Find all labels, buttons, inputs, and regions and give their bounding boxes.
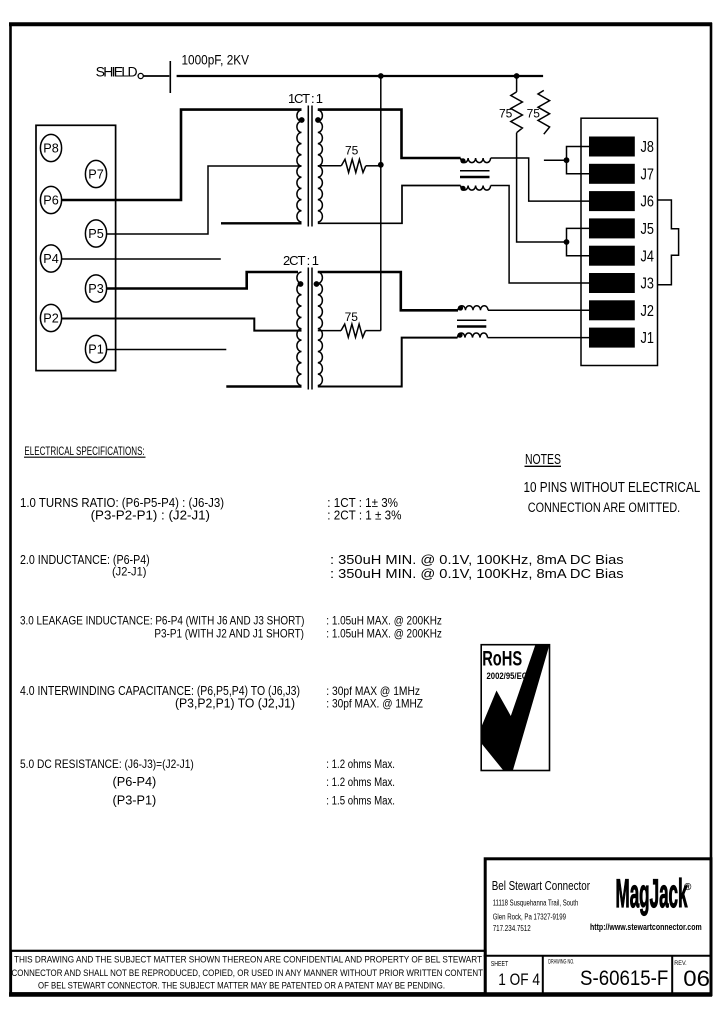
pin P1 [85, 335, 106, 362]
title block divider horizontal [484, 955, 711, 957]
svg-text:J6: J6 [641, 194, 654, 211]
pin P7 [85, 160, 106, 187]
resistor R1 75 ohm (T1 termination) [341, 159, 366, 172]
svg-text:(J2-J1): (J2-J1) [112, 565, 146, 579]
inductor L3 choke winding (T2 top) [458, 306, 488, 311]
svg-text:Bel Stewart Connector: Bel Stewart Connector [492, 879, 590, 893]
transformer T1 secondary winding [318, 110, 323, 222]
pin P5 [85, 220, 106, 247]
node junction dot J5/J4 bridge [564, 239, 570, 245]
svg-text:(P3-P1): (P3-P1) [113, 793, 157, 808]
svg-text:: 1.2 ohms Max.: : 1.2 ohms Max. [326, 777, 395, 789]
svg-text:75: 75 [499, 107, 513, 121]
wire P1 stub [107, 349, 227, 351]
svg-text:J2: J2 [641, 303, 654, 320]
disclaimer box [11, 951, 486, 994]
svg-text:06: 06 [683, 966, 710, 991]
wire T1 primary bottom lead [221, 222, 302, 224]
svg-text:2CT : 1: 2CT : 1 [283, 253, 319, 268]
resistor R2 75 ohm (T2 termination) [341, 324, 366, 337]
wire L3 to J2 [488, 309, 589, 311]
pin P2 [40, 304, 61, 331]
wire R1 to shield bus [366, 165, 381, 167]
svg-text:: 30pf MAX. @ 1MHZ: : 30pf MAX. @ 1MHZ [326, 697, 423, 711]
svg-text:75: 75 [345, 144, 359, 158]
pin J8 [589, 137, 654, 157]
resistor R4 75 ohm vertical (floating) [538, 90, 550, 134]
svg-text:P1: P1 [88, 341, 104, 356]
svg-text:THIS DRAWING AND THE SUBJECT M: THIS DRAWING AND THE SUBJECT MATTER SHOW… [14, 955, 482, 966]
svg-text:(P3,P2,P1) TO (J2,J1): (P3,P2,P1) TO (J2,J1) [175, 696, 295, 711]
pin J3 [589, 273, 654, 293]
wire L1 to J6 [491, 158, 589, 201]
resistor R3 75 ohm vertical [511, 92, 523, 133]
connector P box [36, 125, 116, 370]
svg-text:ELECTRICAL SPECIFICATIONS:: ELECTRICAL SPECIFICATIONS: [24, 446, 144, 458]
svg-text:1000pF, 2KV: 1000pF, 2KV [182, 52, 250, 68]
wire shield to capacitor [143, 75, 169, 77]
disclaimer text [12, 955, 484, 992]
pin J7 [589, 164, 654, 184]
capacitor C1 plate [169, 61, 171, 93]
title block outer box [485, 859, 711, 995]
wire R2 to shield bus [366, 330, 381, 332]
transformer T1 phase dot primary [299, 117, 305, 123]
svg-text:J4: J4 [641, 248, 655, 265]
spec 3.0 leakage inductance [20, 614, 442, 641]
node junction dot rail/shield-bus [378, 73, 384, 79]
svg-text:P3-P1 (WITH J2 AND J1 SHORT): P3-P1 (WITH J2 AND J1 SHORT) [154, 627, 304, 641]
pin P3 [85, 275, 106, 302]
wire J8-J7 bridge [567, 147, 590, 174]
svg-text:P8: P8 [43, 140, 59, 155]
wire T1 secondary bottom to choke L2 [318, 186, 461, 224]
svg-text:OF BEL STEWART CONNECTOR. THE: OF BEL STEWART CONNECTOR. THE SUBJECT MA… [38, 981, 445, 992]
wire P3 to T2 primary top [107, 272, 298, 289]
svg-text:P6: P6 [43, 192, 59, 207]
inductor L4 choke winding (T2 bottom) [458, 333, 488, 338]
svg-text:S-60615-F: S-60615-F [580, 967, 668, 990]
title block divider sheet/drawing [542, 956, 544, 993]
svg-text:: 1.5 ohms Max.: : 1.5 ohms Max. [326, 796, 395, 808]
svg-text:J7: J7 [641, 166, 654, 183]
connector J box [581, 118, 658, 365]
svg-text:CONNECTOR AND SHALL NOT BE REP: CONNECTOR AND SHALL NOT BE REPRODUCED, C… [12, 968, 484, 979]
transformer T1 phase dot secondary [315, 117, 321, 123]
transformer T2 phase dot secondary [314, 281, 320, 287]
wire T1 secondary center tap lead [318, 165, 342, 167]
choke CM2 core [457, 320, 486, 326]
svg-text:DRAWING NO.: DRAWING NO. [548, 959, 574, 965]
svg-text:75: 75 [345, 310, 359, 324]
svg-text:http://www.stewartconnector.co: http://www.stewartconnector.com [590, 922, 702, 932]
svg-text:®: ® [684, 882, 692, 893]
pin J5 [589, 218, 654, 238]
pin P4 [40, 245, 61, 272]
node junction dot rail/R3 [514, 73, 520, 79]
svg-text:Glen Rock, Pa 17327-9199: Glen Rock, Pa 17327-9199 [493, 913, 567, 922]
pin J6 [589, 191, 654, 211]
pin J1 [589, 328, 654, 348]
node junction dot J8/J7 bridge [564, 157, 570, 163]
node junction dot bus/R1 [378, 162, 384, 168]
svg-text:1CT : 1: 1CT : 1 [288, 91, 323, 106]
inductor L2 choke winding (T1 bottom) [461, 186, 491, 191]
svg-text:P2: P2 [43, 310, 59, 325]
heading ELECTRICAL SPECIFICATIONS [24, 446, 146, 458]
wire rail to R3 [516, 76, 518, 92]
transformer T1 primary winding [297, 110, 302, 222]
pin J4 [589, 246, 654, 266]
svg-text:MagJack: MagJack [616, 872, 688, 916]
wire P2 to T2 primary center tap [62, 319, 302, 331]
transformer T2 phase dot primary [298, 281, 304, 287]
svg-text:CONNECTION ARE OMITTED.: CONNECTION ARE OMITTED. [528, 500, 680, 515]
wire top shield rail [177, 75, 543, 77]
wire T2 secondary bottom to choke L4 [318, 338, 458, 387]
pin P8 [40, 134, 61, 161]
bottom thick border [9, 992, 712, 997]
svg-text:3.0 LEAKAGE INDUCTANCE: P6-P4: 3.0 LEAKAGE INDUCTANCE: P6-P4 (WITH J6 A… [20, 614, 304, 628]
wire L2 to J3 [491, 186, 589, 284]
svg-text:75: 75 [527, 107, 541, 121]
svg-text:(P6-P4): (P6-P4) [113, 774, 157, 789]
wire R3 to J5/J4 bridge [517, 133, 567, 242]
svg-text:: 350uH MIN. @ 0.1V, 100KHz, 8: : 350uH MIN. @ 0.1V, 100KHz, 8mA DC Bias [330, 552, 624, 567]
svg-text:717.234.7512: 717.234.7512 [493, 924, 531, 933]
RoHS checkmark [482, 645, 550, 770]
spec 4.0 interwinding capacitance [20, 684, 423, 711]
transformer T2 core [308, 268, 312, 390]
wire J5-J4 bridge [567, 228, 590, 255]
svg-text:SHIELD: SHIELD [96, 64, 138, 80]
wire T2 secondary center tap lead [318, 330, 341, 332]
wire L4 to J1 [488, 337, 590, 339]
wire stub from J8/J7 bridge [544, 159, 567, 161]
wire shield vertical bus [380, 76, 382, 331]
svg-text:: 350uH MIN. @ 0.1V, 100KHz, 8: : 350uH MIN. @ 0.1V, 100KHz, 8mA DC Bias [330, 566, 624, 581]
svg-text:SHEET: SHEET [491, 961, 509, 968]
pin J2 [589, 300, 654, 320]
wire P5 to T1 primary center tap [107, 166, 302, 234]
svg-text:10 PINS WITHOUT ELECTRICAL: 10 PINS WITHOUT ELECTRICAL [524, 480, 701, 496]
svg-text:J3: J3 [641, 276, 654, 293]
svg-text:RoHS: RoHS [482, 648, 522, 671]
svg-text:5.0 DC RESISTANCE: (J6-J3)=(J2: 5.0 DC RESISTANCE: (J6-J3)=(J2-J1) [20, 757, 194, 771]
svg-text:J1: J1 [641, 330, 654, 347]
svg-text:NOTES: NOTES [525, 452, 561, 468]
svg-text:1 OF 4: 1 OF 4 [498, 970, 540, 989]
spec 1.0 turns ratio [20, 495, 402, 523]
svg-text:: 1.2 ohms Max.: : 1.2 ohms Max. [326, 759, 395, 771]
shield terminal circle [138, 73, 143, 78]
svg-text:(P3-P2-P1) : (J2-J1): (P3-P2-P1) : (J2-J1) [91, 508, 210, 523]
transformer T1 core [308, 106, 312, 227]
spec 5.0 dc resistance [20, 757, 395, 808]
svg-text:P4: P4 [43, 251, 59, 266]
svg-text:P3: P3 [88, 281, 104, 296]
svg-text:: 1.05uH MAX. @ 200KHz: : 1.05uH MAX. @ 200KHz [326, 614, 442, 628]
wire P6 to T1 primary top [62, 110, 302, 200]
transformer T2 primary winding [297, 272, 302, 386]
choke CM1 core [460, 171, 490, 177]
svg-text:P5: P5 [88, 226, 104, 241]
svg-text:2002/95/EC: 2002/95/EC [487, 671, 528, 682]
MagJack logo [616, 872, 693, 916]
connector J latch notch [658, 200, 679, 285]
heading NOTES [525, 452, 562, 468]
transformer T2 secondary winding [318, 272, 323, 386]
title block divider drawing/rev [671, 956, 673, 993]
svg-text:11118 Susquehanna Trail, South: 11118 Susquehanna Trail, South [493, 899, 579, 908]
svg-text:: 1.05uH MAX. @ 200KHz: : 1.05uH MAX. @ 200KHz [326, 627, 442, 641]
RoHS logo box [481, 645, 549, 771]
spec 2.0 inductance [20, 552, 624, 581]
pin P6 [40, 186, 61, 213]
svg-text:P7: P7 [88, 166, 104, 181]
svg-text:: 2CT : 1 ± 3%: : 2CT : 1 ± 3% [327, 508, 402, 523]
wire P4 stub [62, 258, 221, 260]
wire T2 secondary top to choke L3 [318, 272, 458, 310]
wire T2 primary bottom lead [226, 385, 301, 387]
inductor L1 choke winding (T1 top) [461, 158, 491, 163]
wire T1 secondary top to choke L1 [318, 110, 461, 158]
note text [524, 480, 701, 515]
svg-text:J5: J5 [641, 221, 654, 238]
svg-text:J8: J8 [641, 139, 654, 156]
